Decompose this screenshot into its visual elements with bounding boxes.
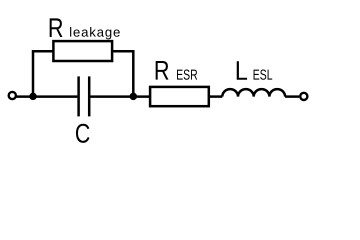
left terminal circle [9, 92, 16, 99]
wire: R_ESR to inductor [209, 95, 223, 98]
capacitor C left plate [77, 76, 80, 116]
label C label [76, 124, 90, 143]
node B junction dot [130, 93, 138, 101]
label R of R_ESR [156, 61, 169, 80]
wire: left terminal to capacitor left plate [16, 95, 78, 98]
wire: inductor to right terminal [285, 95, 299, 98]
wire: R_leakage to right riser down to node B [112, 51, 133, 96]
label R of R_leakage [50, 18, 63, 37]
label ESL subscript [254, 69, 273, 79]
node A junction dot [29, 93, 37, 101]
wire: left riser to R_leakage [33, 51, 53, 96]
capacitor C right plate [88, 76, 91, 116]
right terminal circle [300, 93, 307, 100]
label L of L_ESL [237, 61, 247, 80]
resistor R_leakage box [53, 41, 112, 61]
resistor R_ESR box [150, 87, 209, 106]
label ESR subscript [177, 69, 197, 79]
inductor L_ESL [222, 89, 285, 97]
label leakage subscript [70, 27, 120, 39]
wire: capacitor right plate to R_ESR [89, 95, 150, 98]
